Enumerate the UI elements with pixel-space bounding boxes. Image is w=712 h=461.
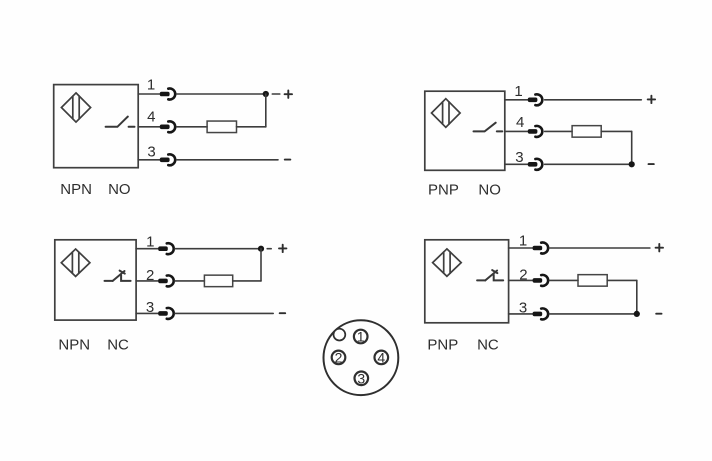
wire pin3 run <box>549 313 636 315</box>
resistor R1 (load) <box>207 121 236 133</box>
NC switch contact S3 <box>105 271 131 281</box>
wire pin4 stub <box>505 130 529 132</box>
wire vertical to junction <box>260 249 262 281</box>
svg-text:1: 1 <box>519 233 527 250</box>
connector socket arc pin2 <box>541 275 548 286</box>
- terminal <box>280 312 286 314</box>
wire pin1 run <box>545 99 642 101</box>
connector plug pin4 <box>528 129 538 134</box>
svg-text:2: 2 <box>335 349 343 365</box>
svg-text:NO: NO <box>108 181 131 198</box>
NO switch contact S1 <box>106 117 135 127</box>
NC switch contact S4 <box>477 270 503 280</box>
+ terminal <box>656 244 663 251</box>
connector plug pin4 <box>160 125 170 130</box>
wire pin1 stub <box>505 99 529 101</box>
resistor R3 (load) <box>204 275 232 287</box>
connector plug pin1 <box>528 98 538 103</box>
resistor R2 (load) <box>572 126 601 137</box>
wire vertical to pin3 junction <box>636 280 638 314</box>
NO switch contact S2 <box>474 123 503 132</box>
wire pin1 to junction <box>177 93 266 95</box>
sensor box U4 (PNP NC) <box>425 240 509 323</box>
connector plug pin2 <box>533 278 543 283</box>
svg-text:1: 1 <box>514 83 522 100</box>
connector socket arc pin3 <box>535 159 542 170</box>
connector socket arc pin1 <box>535 94 542 105</box>
wire vertical to junction <box>265 94 267 127</box>
wire pin4 to resistor <box>177 126 208 128</box>
wire pin3 stub <box>136 312 159 314</box>
connector plug pin1 <box>533 246 543 251</box>
- terminal <box>285 159 291 161</box>
svg-text:3: 3 <box>147 144 155 161</box>
wire pin2 stub <box>136 280 159 282</box>
wire pin3 run <box>177 159 278 161</box>
junction node + supply dash <box>258 246 264 252</box>
+ terminal <box>279 245 286 252</box>
connector plug pin3 <box>158 311 168 316</box>
wire pin1 stub <box>509 247 533 249</box>
wire resistor to vertical <box>607 279 637 281</box>
svg-text:3: 3 <box>515 149 523 166</box>
connector pin 4 circle <box>375 349 389 365</box>
junction node <box>634 311 640 317</box>
connector plug pin3 <box>528 162 538 167</box>
sensor symbol diamond U1 <box>61 93 90 122</box>
connector socket arc pin2 <box>167 275 174 286</box>
connector socket arc pin3 <box>168 154 175 165</box>
wire pin1 stub <box>138 93 160 95</box>
wire pin2 to resistor <box>175 280 204 282</box>
svg-text:NO: NO <box>478 182 501 199</box>
connector socket arc pin3 <box>541 308 548 319</box>
wire pin3 stub <box>138 159 160 161</box>
wire resistor to vertical <box>237 126 266 128</box>
svg-text:4: 4 <box>377 349 385 365</box>
connector pin 3 circle <box>355 370 369 386</box>
connector plug pin3 <box>533 312 543 317</box>
sensor box U3 (NPN NC) <box>55 240 136 320</box>
sensor symbol diamond U4 <box>433 249 462 276</box>
wire pin2 stub <box>509 279 533 281</box>
svg-text:NPN: NPN <box>60 181 92 198</box>
svg-text:4: 4 <box>147 108 155 125</box>
junction node + supply dash <box>263 91 269 97</box>
sensor symbol diamond U3 <box>61 249 90 276</box>
wire pin1 to junction <box>175 248 261 250</box>
connector socket arc pin1 <box>168 89 175 100</box>
connector pin 1 circle <box>354 329 368 345</box>
svg-text:NPN: NPN <box>58 337 90 354</box>
sensor symbol diamond U2 <box>432 99 461 128</box>
sensor box U1 (NPN NO) <box>54 85 139 168</box>
connector face J1 outer circle <box>324 320 399 395</box>
svg-text:PNP: PNP <box>428 182 459 199</box>
svg-text:NC: NC <box>477 336 499 353</box>
connector plug pin2 <box>158 279 168 284</box>
wire pin3 stub <box>509 313 533 315</box>
wire pin3 stub <box>505 163 529 165</box>
wire pin2 to resistor <box>549 279 578 281</box>
+ terminal <box>285 91 292 98</box>
wire vertical to pin3 junction <box>631 131 633 164</box>
junction node <box>629 161 635 167</box>
svg-text:NC: NC <box>107 337 129 354</box>
wire pin3 run <box>175 312 273 314</box>
wire pin4 to resistor <box>545 130 573 132</box>
connector plug pin1 <box>160 92 170 97</box>
- terminal <box>656 313 661 315</box>
connector keying notch <box>334 329 346 341</box>
connector plug pin1 <box>158 246 168 251</box>
connector pin 2 circle <box>332 349 346 365</box>
sensor box U2 (PNP NO) <box>425 91 505 170</box>
svg-text:4: 4 <box>516 114 524 131</box>
wire resistor to vertical <box>601 130 632 132</box>
svg-text:3: 3 <box>357 370 365 386</box>
wire pin3 run <box>545 163 632 165</box>
svg-text:1: 1 <box>147 77 155 94</box>
svg-text:PNP: PNP <box>427 336 458 353</box>
connector socket arc pin3 <box>167 308 174 319</box>
svg-text:1: 1 <box>146 233 154 250</box>
connector socket arc pin4 <box>168 121 175 132</box>
svg-text:1: 1 <box>357 329 365 345</box>
- terminal <box>649 163 654 165</box>
wire resistor to vertical <box>233 280 261 282</box>
+ terminal <box>648 96 655 103</box>
wire pin1 run <box>549 247 650 249</box>
wire pin1 stub <box>136 248 159 250</box>
resistor R4 (load) <box>578 275 607 287</box>
connector socket arc pin1 <box>167 243 174 254</box>
connector plug pin3 <box>160 158 170 163</box>
wire pin4 stub <box>138 126 160 128</box>
connector socket arc pin1 <box>541 243 548 254</box>
connector socket arc pin4 <box>535 126 542 137</box>
